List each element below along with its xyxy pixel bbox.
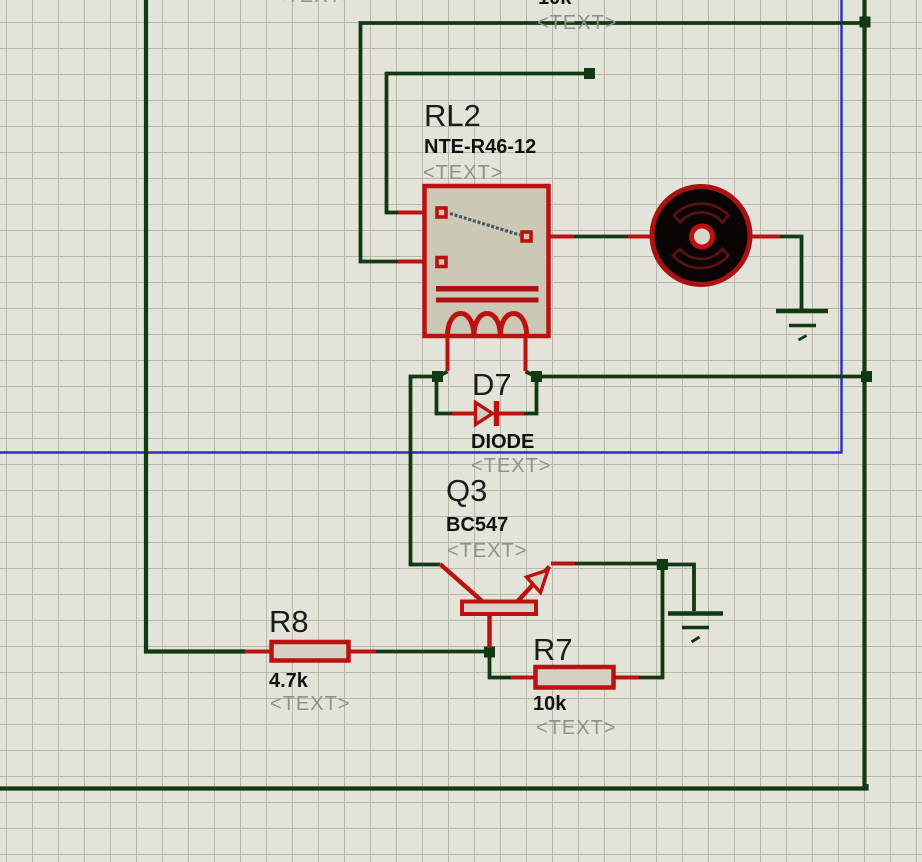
svg-text:R8: R8 — [269, 604, 309, 639]
label R7 — [533, 632, 573, 667]
blue sheet border vertical — [840, 0, 842, 453]
svg-text:4.7k: 4.7k — [269, 670, 309, 692]
node base junction — [484, 647, 495, 658]
wire node C to ground A — [666, 565, 694, 612]
label D7 — [472, 367, 512, 402]
label q3 TEXT — [447, 540, 527, 562]
svg-text:R7: R7 — [533, 632, 573, 667]
label NTE-R46-12 — [424, 136, 536, 158]
wire node A to diode anode — [437, 380, 454, 414]
wire R7 left to base node — [490, 657, 513, 678]
svg-text:BC547: BC547 — [446, 514, 508, 536]
node C junction — [657, 559, 668, 570]
label DIODE — [471, 431, 534, 453]
label r8 TEXT — [270, 693, 350, 715]
node top-right junction — [860, 17, 871, 28]
ground B (near motor) — [776, 311, 828, 340]
relay pin 1 terminal — [437, 208, 446, 217]
motor stubs — [628, 235, 780, 239]
label BC547 — [446, 514, 508, 536]
transistor Q3 — [440, 564, 575, 649]
motor brush arc top — [674, 204, 729, 223]
ground A (near Q3 emitter) — [668, 614, 723, 643]
svg-text:10k: 10k — [533, 693, 567, 715]
motor hub — [692, 226, 713, 247]
label relay TEXT — [423, 162, 503, 184]
svg-text:Q3: Q3 — [446, 473, 487, 508]
wire R8 right to base node — [375, 650, 485, 654]
svg-text:<TEXT>: <TEXT> — [274, 0, 354, 7]
svg-text:NTE-R46-12: NTE-R46-12 — [424, 136, 536, 158]
relay coil — [448, 314, 527, 337]
wire emitter to node C — [574, 562, 657, 566]
wire bottom horizontal — [0, 784, 867, 789]
wire coil right pin tie — [526, 372, 537, 377]
label RL2 — [424, 98, 481, 133]
node rail-right junction — [861, 371, 872, 382]
svg-text:<TEXT>: <TEXT> — [270, 693, 350, 715]
resistor R8 — [245, 642, 376, 661]
wire inner top to relay pin 1 row — [387, 74, 590, 213]
relay RL2 body — [425, 186, 549, 336]
label R8 — [269, 604, 309, 639]
motor brush arc bottom — [673, 249, 729, 268]
wire node C down to R7 right — [638, 569, 663, 678]
svg-text:<TEXT>: <TEXT> — [423, 162, 503, 184]
relay pin 2 terminal — [437, 258, 446, 267]
svg-text:<TEXT>: <TEXT> — [536, 717, 616, 739]
wire diode cathode to node B — [523, 380, 537, 414]
wire main rail to right vertical — [541, 375, 865, 379]
node B junction — [531, 371, 542, 382]
wire coil left pin tie — [438, 372, 448, 377]
label 10k — [533, 693, 567, 715]
svg-text:10k: 10k — [538, 0, 572, 9]
label diode TEXT — [471, 455, 551, 477]
wire left vertical to R8 — [146, 0, 246, 652]
label top-left TEXT partial — [274, 0, 354, 7]
wire end square — [584, 68, 595, 79]
diode D7 — [452, 401, 524, 426]
blue sheet border horizontal — [0, 451, 843, 453]
label r7 TEXT — [536, 717, 616, 739]
resistor R7 — [511, 667, 639, 688]
wire right vertical — [862, 0, 866, 789]
svg-text:RL2: RL2 — [424, 98, 481, 133]
svg-text:<TEXT>: <TEXT> — [447, 540, 527, 562]
wire motor to ground B — [779, 237, 802, 311]
relay RL2 pin stubs — [398, 213, 574, 262]
wire top outer loop to relay pin 2 row — [361, 23, 865, 262]
svg-text:D7: D7 — [472, 367, 512, 402]
motor body — [652, 187, 750, 285]
label Q3 — [446, 473, 487, 508]
svg-text:DIODE: DIODE — [471, 431, 534, 453]
relay coil pin wires — [448, 335, 526, 371]
relay common terminal — [522, 232, 531, 241]
relay core bar 1 — [436, 286, 539, 292]
label 4.7k — [269, 670, 309, 692]
relay core bar 2 — [436, 298, 539, 303]
svg-text:<TEXT>: <TEXT> — [537, 12, 617, 34]
wire relay common to motor — [573, 235, 629, 239]
label top TEXT — [537, 12, 617, 34]
node A junction — [432, 371, 443, 382]
label top 10k partial — [538, 0, 572, 9]
relay RL2 switch arm — [450, 214, 520, 236]
wire node A down-left to Q3 collector — [411, 377, 441, 565]
